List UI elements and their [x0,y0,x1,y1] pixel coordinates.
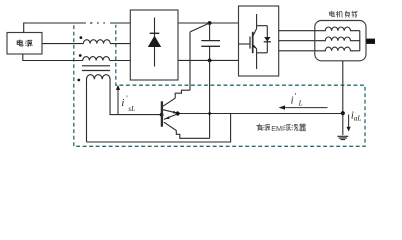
IGBT Q3 gate wire [239,43,251,45]
svg-text:i: i [121,98,124,109]
svg-text:i: i [291,95,294,106]
polarity dot winding L2 [79,54,82,57]
active EMI filter dashed boundary box [74,25,365,146]
source box 电源 [7,33,42,55]
label 有源EMI滤波器 [256,124,270,131]
node: bottom bus junction [208,59,212,63]
IGBT Q3 emitter with arrow [253,45,257,69]
wire phase C bottom: from source bottom terminal [23,54,83,61]
svg-text:': ' [126,94,128,103]
wire from switch down to Q1 collector [189,32,191,90]
transistor Q1 (NPN) collector [163,90,190,106]
sampling wire from bottom bus down to Q2 collector line [209,60,211,138]
source label 源 [25,40,32,47]
wire phase A right segment into rectifier [110,22,130,24]
capacitor C1 bottom lead [209,46,211,60]
node: top bus junction [208,21,212,25]
wire phase C right segment into rectifier [110,60,131,62]
polarity dot winding L1 [80,36,83,39]
polarity dot winding L3 [77,79,80,82]
svg-text:EMI: EMI [271,124,284,133]
wire phase B middle: from source right terminal [42,43,83,45]
annotation arrow i_aL [348,115,350,128]
three-phase line U to motor with winding [279,27,360,31]
source label 电 [17,40,23,46]
choke winding L3 (sense winding) with left leg down to bottom wire [87,75,162,142]
transistor Q2 (PNP) emitter with arrow toward base [164,114,177,119]
transistor Q1 emitter with arrow [163,110,176,113]
capacitor C1 plates [201,41,220,47]
wire phase A top: from source top terminal to rectifier [24,23,86,33]
common-mode choke dashed box top edge (dash-dot) [90,22,105,24]
three-phase line W to motor with winding [279,47,360,51]
IGBT Q3 channel bar [252,32,254,53]
transistor pair common base bar [161,101,163,126]
switch lever S1 [190,23,210,32]
bottom return wire of filter [87,114,231,143]
annotation arrow i'_sL (up) [117,89,119,114]
node: base input junction [160,113,164,117]
motor shaft stub [366,39,375,44]
IGBT Q3 collector [253,14,257,37]
choke winding L1 (on phase B) [83,40,110,44]
svg-text:aL: aL [354,115,362,123]
annotation arrow i'_L [284,107,328,109]
svg-text:': ' [295,91,297,100]
freewheel diode D2 [264,37,270,42]
capacitor C1 top lead [209,23,211,41]
node: motor frame to main wire junction [341,111,345,115]
freewheel diode D2 branch links [257,26,268,53]
choke core bars [82,66,110,71]
svg-text:sL: sL [128,105,135,113]
transistor Q2 (PNP) collector path to bottom [164,122,210,138]
choke winding L2 (on phase C) [83,57,110,61]
DC bus top [178,22,239,24]
wire phase B right segment into rectifier [110,43,130,45]
ground symbol [337,136,348,139]
DC bus bottom [178,59,239,61]
svg-text:L: L [298,99,303,107]
rectifier diode D1 [154,18,156,67]
node: emitter output junction [176,111,180,115]
motor load box [315,21,366,61]
node: sampling wire crossing [208,112,211,115]
rectifier box U1 [130,10,178,80]
three-phase line V to motor with winding [279,37,360,41]
motor star point bar [359,31,361,51]
inverter box U2 [239,6,279,76]
IGBT Q3 gate bar [249,37,251,49]
motor frame wire down to filter [342,61,344,135]
main feedback wire [178,113,343,115]
label 电机负载 [330,11,358,18]
